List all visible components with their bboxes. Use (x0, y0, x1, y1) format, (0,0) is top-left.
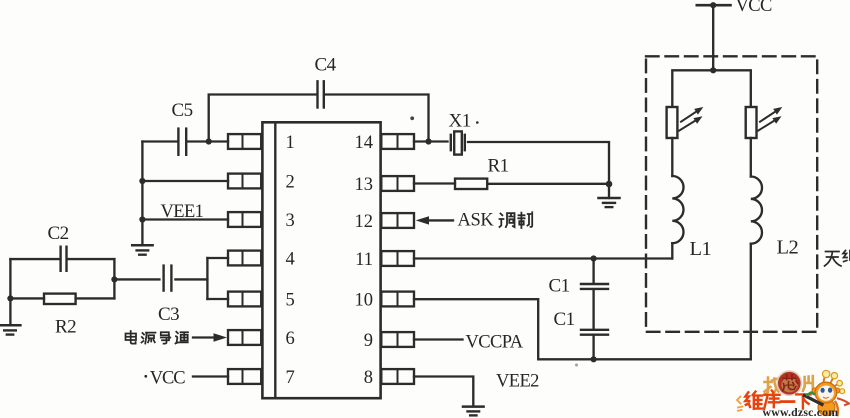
node R1 / X1 ground (606, 181, 613, 188)
pin 12 (355, 212, 415, 232)
capacitor C4 (315, 54, 337, 107)
svg-text:C3: C3 (158, 304, 179, 325)
wire C4 right riser to pin 14 node (325, 95, 429, 142)
wire X1 right to ground drop (468, 142, 609, 184)
ground at pin 8 (463, 407, 484, 416)
svg-text:12: 12 (355, 212, 374, 232)
pin 7 (228, 368, 295, 388)
pin 4 (228, 249, 295, 269)
pin 5 (228, 290, 295, 310)
wire left bus vertical (141, 142, 143, 246)
svg-text:11: 11 (355, 250, 373, 270)
capacitor C1 (lower) (554, 309, 609, 335)
wire R2 left lead (10, 297, 44, 299)
svg-text:3: 3 (286, 211, 295, 231)
capacitor C2 (48, 223, 69, 271)
pin 11 (355, 250, 414, 270)
svg-text:4: 4 (286, 249, 295, 269)
svg-text:VCCPA: VCCPA (466, 332, 524, 352)
svg-text:VCC: VCC (736, 0, 772, 16)
pin 6 (228, 329, 295, 349)
logo 找芯片 outline characters (765, 376, 813, 396)
svg-text:C2: C2 (48, 223, 69, 244)
logo mascot (805, 370, 850, 415)
ground at R1 node (599, 184, 620, 207)
wire pin 14 to crystal (414, 140, 448, 142)
node antenna rail (710, 67, 716, 73)
pin 2 (228, 172, 295, 192)
wire between C1 caps (592, 290, 594, 329)
svg-text:7: 7 (286, 368, 295, 388)
IC U1 body (262, 122, 380, 398)
wire pin 12 ASK arrow (416, 216, 453, 224)
wire left vertical of RC pair (9, 259, 11, 298)
svg-text:1: 1 (286, 133, 295, 153)
capacitor C3 (158, 266, 179, 325)
svg-text:VCC: VCC (150, 368, 185, 388)
label power-enable CJK 电源导通 (126, 331, 189, 344)
wire L2 down to bottom rail (750, 244, 752, 360)
power VCC terminal top right (697, 0, 772, 16)
node left bus / pin3 (139, 216, 145, 222)
wire L1 to pin 11 rail (671, 243, 673, 258)
speck artifact 2 (575, 364, 578, 367)
pin 3 (228, 211, 295, 231)
node pin 1 / C4 / C5 (206, 138, 212, 144)
wire right vertical of RC pair (113, 259, 115, 298)
svg-text:L2: L2 (777, 237, 799, 259)
inductor L2 (751, 176, 799, 258)
svg-text:10: 10 (355, 290, 374, 310)
pin 1 (228, 133, 295, 153)
svg-text:R2: R2 (55, 317, 76, 338)
node C1 bottom (591, 356, 597, 362)
crystal X1 (449, 110, 479, 154)
label VCC pin 7 (144, 368, 185, 388)
wire pin 6 arrow (power enable) (193, 333, 227, 341)
resistor R2 (44, 294, 76, 338)
wire pin 3 / VEE1 (142, 218, 228, 220)
svg-text:VEE2: VEE2 (496, 372, 539, 392)
node R2 / ground (7, 295, 13, 301)
wire C5 left lead on left bus (142, 140, 177, 142)
capacitor C1 (upper) (549, 275, 609, 296)
wire pin 10 down and across (414, 299, 751, 359)
svg-text:8: 8 (364, 368, 373, 388)
svg-text:VEE1: VEE1 (161, 202, 204, 222)
svg-text:6: 6 (286, 329, 295, 349)
logo orange chevrons (737, 397, 743, 411)
pin 13 (355, 175, 415, 195)
wire pin 13 to R1 (414, 182, 455, 184)
svg-text:5: 5 (286, 290, 295, 310)
inductor L1 (672, 176, 711, 260)
ground below left bus (132, 245, 152, 254)
svg-text:ASK: ASK (458, 211, 495, 231)
speck artifact (410, 116, 414, 120)
svg-text:14: 14 (355, 133, 374, 153)
wire C3 right lead (175, 278, 207, 280)
wire pin 5 (207, 298, 228, 300)
antenna radiator 2 (746, 107, 783, 138)
wire R2 right lead (76, 297, 115, 299)
antenna enclosure (dashed) (646, 56, 817, 332)
svg-text:C4: C4 (315, 54, 337, 75)
svg-text:L1: L1 (690, 238, 712, 260)
logo red text 维库一下 (745, 391, 810, 409)
label ASK modulation CJK 调制 (500, 212, 533, 228)
wire radiator 2 to L2 (750, 138, 752, 177)
pin 14 (355, 133, 415, 153)
wire C4 left riser from pin 1 node (209, 95, 316, 142)
wire C1 string vertical bottom (592, 336, 594, 360)
svg-text:2: 2 (286, 172, 295, 192)
svg-text:X1: X1 (449, 110, 471, 131)
resistor R1 (455, 155, 509, 189)
svg-text:13: 13 (355, 175, 374, 195)
node C3 branch (111, 276, 117, 282)
wire VCC drop into antenna box (712, 5, 714, 70)
svg-text:C1: C1 (549, 275, 570, 296)
wire pin 4 (207, 257, 228, 259)
wire C2 top right (68, 258, 115, 260)
wire pin 2 (142, 180, 228, 182)
capacitor C5 (172, 100, 193, 155)
svg-text:9: 9 (364, 331, 373, 351)
label antenna 天线 (825, 251, 850, 267)
pin 9 (364, 331, 414, 351)
svg-text:C5: C5 (172, 100, 193, 121)
pin 10 (355, 290, 415, 310)
wire pin 11 to antenna L1 (414, 257, 672, 259)
wire C3 left lead (114, 278, 159, 280)
node pin 14 / C4 / X1 (425, 138, 431, 144)
svg-text:R1: R1 (488, 155, 509, 176)
node left bus / pin2 (139, 178, 145, 184)
wire antenna top rail (672, 70, 751, 107)
svg-text:C1: C1 (554, 309, 575, 330)
wire R1 right to ground node (487, 183, 609, 185)
wire pin 9 VCCPA lead (414, 338, 463, 340)
node C1 top (591, 255, 597, 261)
svg-text:www.dzsc.com: www.dzsc.com (763, 405, 839, 418)
antenna radiator 1 (667, 107, 704, 138)
ground below R2 node (0, 298, 20, 334)
wire C1 string vertical top (592, 259, 594, 284)
wire pin 8 to ground (414, 377, 473, 406)
pin 8 (364, 368, 414, 388)
wire C5 right lead to pin 1 (187, 140, 228, 142)
logo red circle with 芯 (777, 371, 801, 395)
wire pin 7 VCC lead (193, 375, 228, 377)
wire fork vertical pins 4-5 (206, 258, 208, 299)
wire radiator 1 to L1 (671, 138, 673, 176)
wire C2 top left (10, 258, 59, 260)
